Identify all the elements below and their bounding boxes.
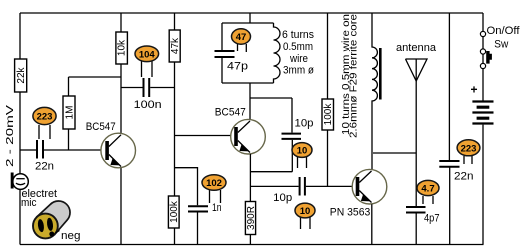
svg-text:1n: 1n <box>212 202 222 214</box>
svg-text:47: 47 <box>236 32 247 43</box>
svg-text:antenna: antenna <box>396 42 437 54</box>
svg-text:22k: 22k <box>16 66 27 83</box>
svg-text:neg: neg <box>61 230 81 242</box>
svg-text:wire: wire <box>289 53 308 65</box>
svg-text:10: 10 <box>300 206 311 217</box>
svg-text:22n: 22n <box>35 161 54 173</box>
svg-text:104: 104 <box>139 49 156 60</box>
svg-text:47k: 47k <box>170 37 181 54</box>
svg-text:3mm ø: 3mm ø <box>283 65 314 77</box>
svg-text:mic: mic <box>21 197 37 209</box>
svg-text:223: 223 <box>461 143 477 154</box>
svg-text:100n: 100n <box>134 99 162 111</box>
svg-text:1M: 1M <box>64 106 75 120</box>
svg-text:On/Off: On/Off <box>487 25 521 37</box>
svg-text:6 turns: 6 turns <box>282 29 314 41</box>
svg-text:223: 223 <box>37 112 53 123</box>
svg-text:2 - 20mV: 2 - 20mV <box>5 105 16 167</box>
svg-text:4p7: 4p7 <box>424 212 440 224</box>
svg-text:10p: 10p <box>273 192 292 204</box>
svg-text:100k: 100k <box>323 103 334 126</box>
svg-text:Sw: Sw <box>494 39 508 51</box>
svg-text:BC547: BC547 <box>215 107 246 119</box>
svg-text:PN 3563: PN 3563 <box>330 207 371 219</box>
svg-text:4.7: 4.7 <box>421 184 434 195</box>
svg-text:10p: 10p <box>295 118 314 130</box>
svg-text:0.5mm: 0.5mm <box>283 41 313 53</box>
svg-text:47p: 47p <box>227 60 248 72</box>
svg-text:2.6mmø F29 ferrite core: 2.6mmø F29 ferrite core <box>349 14 360 138</box>
svg-text:390R: 390R <box>246 206 257 230</box>
svg-text:BC547: BC547 <box>86 121 116 133</box>
svg-text:22n: 22n <box>454 170 474 182</box>
svg-text:+: + <box>471 83 478 97</box>
svg-text:102: 102 <box>206 178 222 189</box>
svg-text:10k: 10k <box>117 39 128 56</box>
svg-text:100k: 100k <box>169 200 180 223</box>
svg-text:10: 10 <box>297 146 308 157</box>
